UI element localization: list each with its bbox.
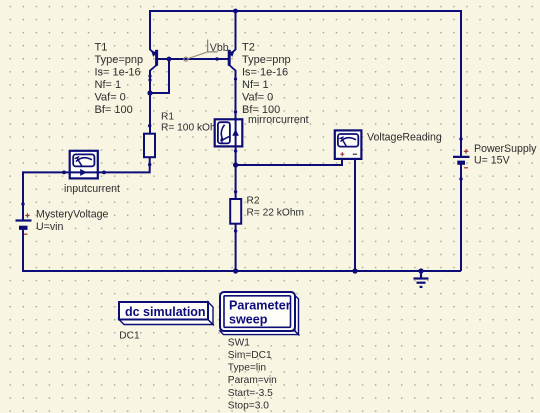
node label Vbb <box>184 40 229 62</box>
node dots T1 collector wire <box>148 74 152 127</box>
svg-text:MysteryVoltage: MysteryVoltage <box>36 209 109 221</box>
node dot mirrorcurrent bottom pin <box>234 149 237 152</box>
junction base loop <box>167 57 172 62</box>
svg-text:Sim=DC1: Sim=DC1 <box>228 350 272 361</box>
voltmeter VoltageReading <box>335 130 362 159</box>
ground <box>414 271 429 287</box>
ammeter inputcurrent <box>64 151 104 179</box>
wire T1 emitter to top rail <box>149 10 151 50</box>
svg-text:PowerSupply: PowerSupply <box>474 143 537 155</box>
svg-text:U= 15V: U= 15V <box>474 154 511 166</box>
label mirrorcurrent <box>248 114 309 126</box>
svg-text:U=vin: U=vin <box>36 221 63 233</box>
Parameter sweep box <box>220 292 299 335</box>
svg-text:Nf= 1: Nf= 1 <box>242 79 269 91</box>
svg-text:T2: T2 <box>242 42 255 54</box>
wire PowerSupply to bottom rail <box>460 165 462 272</box>
voltage source MysteryVoltage <box>16 213 32 234</box>
wire T2 collector to ammeter <box>235 70 237 119</box>
junction collector loop <box>147 90 152 95</box>
svg-text:Vaf= 0: Vaf= 0 <box>95 92 126 104</box>
node dots inputcurrent pins <box>62 171 106 175</box>
svg-text:R1: R1 <box>161 112 174 123</box>
wire R2 bottom to rail <box>235 224 237 271</box>
svg-text:dc simulation: dc simulation <box>125 305 206 319</box>
junction top rail / T2 emitter <box>233 9 238 14</box>
SW1 labels <box>228 337 277 411</box>
junction voltmeter rail <box>352 268 357 273</box>
node dot R2 bottom pin <box>234 229 237 232</box>
label VoltageReading <box>367 132 442 144</box>
wire base T1 to T2 <box>158 58 229 60</box>
MysteryVoltage labels <box>36 209 109 234</box>
voltage source PowerSupply <box>453 149 470 168</box>
junction R2 bottom rail <box>233 268 238 273</box>
wire left column down to source <box>22 171 24 219</box>
wire base-collector feedback loop <box>150 59 169 93</box>
ammeter mirrorcurrent <box>215 119 243 165</box>
svg-text:R2: R2 <box>247 196 260 207</box>
wire bottom rail <box>22 270 461 272</box>
svg-text:Param=vin: Param=vin <box>228 375 277 386</box>
svg-text:Is= 1e-16: Is= 1e-16 <box>95 67 141 79</box>
svg-text:VoltageReading: VoltageReading <box>367 132 442 144</box>
junction ground rail <box>418 268 423 273</box>
T2 labels <box>242 42 291 117</box>
svg-text:Vaf= 0: Vaf= 0 <box>242 92 273 104</box>
transistor T1 <box>150 50 157 71</box>
node dot base wire segment joint <box>215 57 218 60</box>
node dot battery top pin <box>21 202 24 205</box>
R1 labels <box>161 112 224 134</box>
wire R1 bottom <box>104 157 150 172</box>
svg-text:T1: T1 <box>95 42 108 54</box>
svg-text:Stop=3.0: Stop=3.0 <box>228 401 269 412</box>
svg-text:SW1: SW1 <box>228 337 250 348</box>
label DC1 <box>119 331 140 342</box>
node dot R2 top pin <box>234 190 237 193</box>
wire source to bottom rail <box>22 230 24 271</box>
svg-text:sweep: sweep <box>229 312 268 326</box>
svg-text:Type=lin: Type=lin <box>228 363 266 374</box>
wire T2 emitter to top rail <box>235 10 237 50</box>
wire mirror junction to voltmeter <box>236 159 342 165</box>
node dot PowerSupply bottom pin <box>459 177 462 180</box>
svg-text:inputcurrent: inputcurrent <box>64 183 120 195</box>
R2 labels <box>247 196 304 219</box>
svg-text:Type=pnp: Type=pnp <box>95 54 144 66</box>
wire mirror junction to R2 <box>235 165 237 199</box>
svg-text:Start=-3.5: Start=-3.5 <box>228 388 273 399</box>
T1 labels <box>95 42 144 117</box>
transistor T2 <box>228 50 235 71</box>
wire voltmeter minus to bottom rail <box>354 159 356 271</box>
junction mirror output <box>233 162 238 167</box>
wire top rail to PowerSupply <box>460 10 462 156</box>
svg-text:R= 22 kOhm: R= 22 kOhm <box>247 208 304 219</box>
dc simulation box <box>119 302 213 325</box>
svg-text:Nf= 1: Nf= 1 <box>95 79 122 91</box>
label inputcurrent <box>64 183 120 195</box>
node dots T2 collector wire <box>234 77 237 113</box>
resistor R1 <box>144 134 155 158</box>
wire input row to left column <box>23 171 64 173</box>
node dot PowerSupply top pin <box>459 137 462 140</box>
PowerSupply labels <box>474 143 537 166</box>
resistor R2 <box>230 199 241 224</box>
svg-text:Parameter: Parameter <box>229 298 291 312</box>
svg-text:Type=pnp: Type=pnp <box>242 54 291 66</box>
svg-text:DC1: DC1 <box>119 331 140 342</box>
svg-text:Is= 1e-16: Is= 1e-16 <box>242 67 288 79</box>
svg-text:mirrorcurrent: mirrorcurrent <box>248 114 309 126</box>
svg-text:Vbb: Vbb <box>210 42 229 54</box>
wire top rail Vcc <box>150 10 461 12</box>
svg-text:Bf= 100: Bf= 100 <box>95 104 133 116</box>
wire T1 collector to R1 <box>149 70 151 134</box>
node dot R1 bottom <box>148 163 151 166</box>
